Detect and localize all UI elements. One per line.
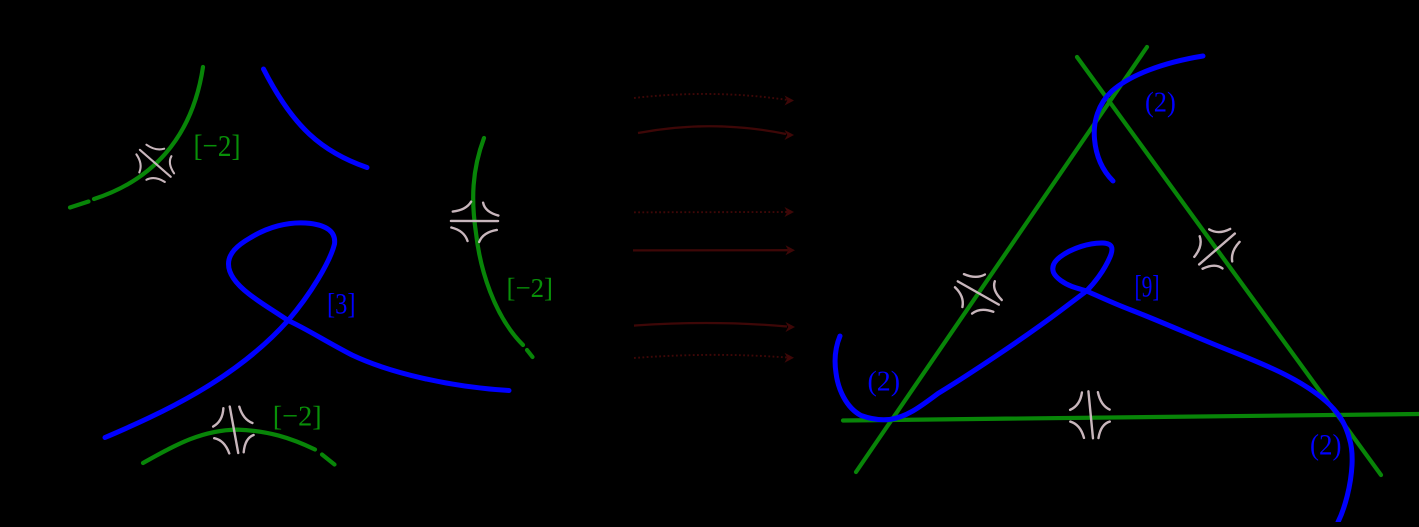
svg-text:[3]: [3] (327, 287, 356, 320)
arrow 1 dotted (634, 94, 788, 100)
green curve D end dash (527, 350, 533, 357)
node marker M2 on curve D (449, 200, 499, 243)
blue nodal curve C (left loop) (105, 223, 509, 438)
svg-text:(2): (2) (1310, 429, 1342, 462)
green line L2 (right side of triangle) (1077, 57, 1381, 475)
blue top arc (right figure) (1094, 56, 1203, 181)
svg-text:[−2]: [−2] (507, 272, 554, 303)
green curve D (middle) (473, 138, 523, 345)
node marker M3 on arch E (211, 405, 255, 456)
blue arc B (top) (264, 69, 368, 168)
arrow 6 dotted (634, 355, 787, 358)
svg-text:(2): (2) (1145, 86, 1176, 118)
green curve A (top-left) (94, 67, 203, 199)
node marker M6 on L3 (1070, 391, 1110, 438)
svg-text:[9]: [9] (1135, 268, 1160, 303)
green curve A end dash (70, 202, 89, 208)
green line L3 (bottom of triangle) (843, 414, 1419, 421)
blue nodal curve (right figure) (835, 243, 1352, 522)
arrow 5 solid (634, 323, 787, 326)
node marker M5 on L2 (1186, 219, 1247, 279)
svg-text:[−2]: [−2] (273, 401, 322, 433)
node marker M1 on curve A (128, 137, 181, 190)
arrow 3 dotted (634, 211, 787, 213)
node marker M4 on L1 (947, 264, 1008, 323)
svg-text:(2): (2) (868, 366, 901, 398)
green arch E end dash (322, 455, 335, 465)
green arch E (bottom) (143, 430, 315, 463)
arrow 2 solid (638, 126, 786, 134)
arrow 4 solid (633, 249, 788, 251)
svg-text:[−2]: [−2] (194, 128, 241, 163)
green line L1 (left side of triangle) (856, 47, 1147, 472)
